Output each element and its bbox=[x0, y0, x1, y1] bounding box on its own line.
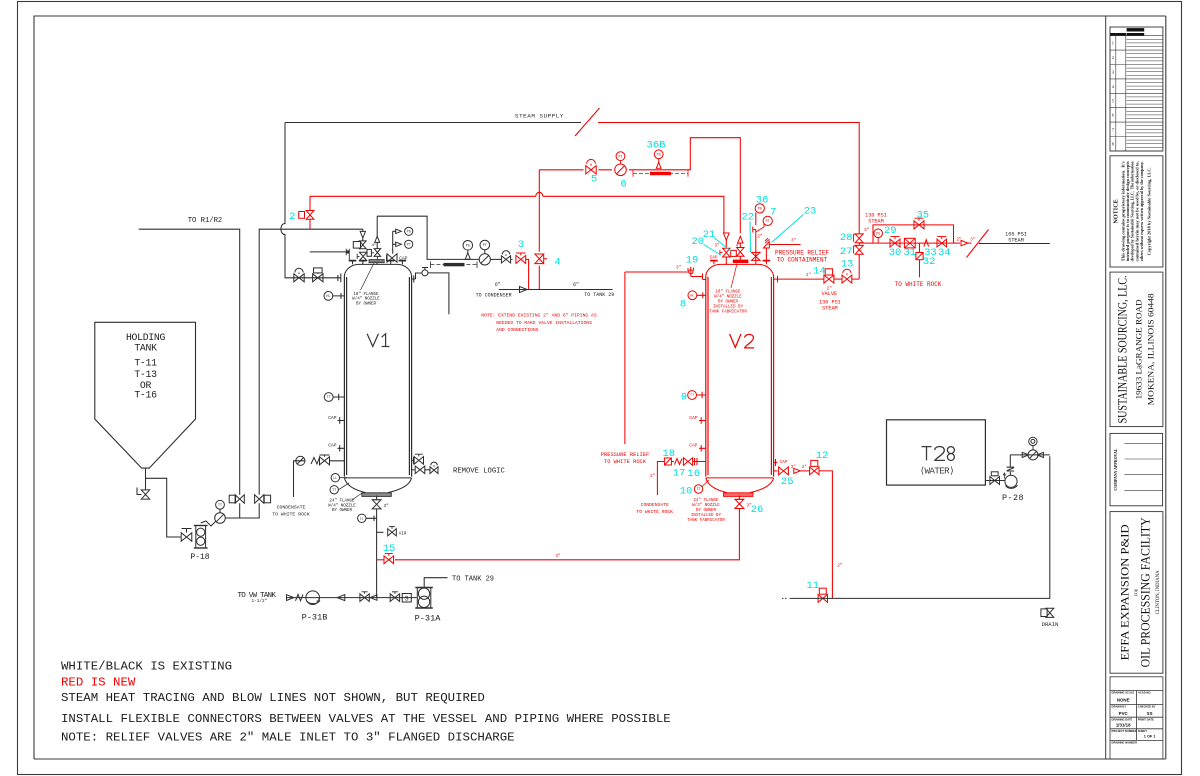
svg-text:VALVE: VALVE bbox=[822, 291, 838, 297]
svg-text:TT: TT bbox=[327, 396, 331, 400]
valve 31 plug bbox=[904, 238, 915, 248]
svg-text:TO CONDENSER: TO CONDENSER bbox=[476, 292, 512, 298]
svg-text:REMOVE LOGIC: REMOVE LOGIC bbox=[453, 468, 505, 476]
pump P-31A bbox=[417, 588, 431, 609]
svg-text:STEAM: STEAM bbox=[1008, 237, 1024, 243]
svg-text:LL: LL bbox=[360, 518, 364, 522]
svg-text:TO WHITE ROCK: TO WHITE ROCK bbox=[636, 509, 673, 515]
wire manifold tail with check bbox=[954, 242, 961, 244]
dimension INSTALL LENGTH black bbox=[430, 264, 477, 266]
leader 22 bbox=[749, 222, 752, 253]
wire valve 12 to drain header bbox=[819, 471, 832, 599]
svg-text:EFFA EXPANSION P&ID: EFFA EXPANSION P&ID bbox=[1120, 524, 1132, 660]
wire steam supply drop to V1 line bbox=[281, 123, 341, 278]
svg-text:28: 28 bbox=[840, 232, 853, 244]
svg-text:6: 6 bbox=[620, 178, 626, 190]
vessel V2 top nozzles bbox=[714, 261, 767, 265]
leader 21 bbox=[715, 238, 732, 252]
P-28 suction valve bbox=[990, 477, 1000, 485]
svg-text:TT: TT bbox=[218, 504, 222, 508]
svg-text:3: 3 bbox=[1112, 70, 1114, 75]
pump P-18 discharge flex and control valve bbox=[201, 521, 216, 526]
svg-text:PRINT DATE: PRINT DATE bbox=[1138, 717, 1154, 721]
svg-text:2″: 2″ bbox=[957, 238, 962, 243]
svg-text:BY OWNER: BY OWNER bbox=[356, 302, 377, 306]
svg-text:CAP: CAP bbox=[328, 415, 337, 421]
V1 bottom LL gauge bbox=[358, 514, 366, 522]
red steam supply continuation bbox=[598, 123, 859, 234]
drain valve bbox=[1046, 608, 1054, 617]
V1 bottom right stub valves bbox=[412, 457, 414, 464]
V2 CAP side nozzle lower bbox=[699, 445, 706, 451]
valve 13 globe bbox=[834, 278, 842, 280]
svg-text:22: 22 bbox=[741, 211, 754, 223]
svg-text:9: 9 bbox=[681, 392, 687, 404]
svg-text:CAP: CAP bbox=[399, 256, 408, 262]
wire T28 outlet to P-28 bbox=[985, 480, 1005, 482]
revision table column header bars bbox=[1110, 33, 1125, 36]
svg-text:DRAWN BY: DRAWN BY bbox=[1112, 705, 1127, 709]
valve 19 fitting bbox=[688, 267, 703, 280]
svg-text:4″: 4″ bbox=[736, 244, 741, 249]
svg-text:HL: HL bbox=[690, 295, 694, 299]
revision table grid bbox=[1110, 33, 1163, 151]
valve 30 bbox=[890, 239, 900, 247]
wire between 28 and 27 bbox=[858, 243, 860, 246]
project title box bbox=[1110, 512, 1163, 674]
leader 23 bbox=[772, 215, 804, 243]
valve on relief riser bbox=[255, 495, 264, 503]
svg-text:SHEET: SHEET bbox=[1138, 729, 1147, 733]
svg-text:PI: PI bbox=[618, 155, 622, 159]
red break slash right bbox=[967, 230, 989, 258]
svg-text:29: 29 bbox=[884, 225, 897, 237]
svg-text:STEAM: STEAM bbox=[868, 218, 884, 224]
svg-text:PG: PG bbox=[876, 233, 880, 237]
svg-text:1 OF 1: 1 OF 1 bbox=[1144, 735, 1156, 739]
red dimension INSTALL LENGTH bbox=[633, 173, 688, 175]
V1 top relief drop from header bbox=[362, 229, 364, 231]
V1 center 4in valve train bbox=[376, 216, 378, 236]
V1 HL gauge bbox=[324, 292, 333, 301]
svg-text:3″: 3″ bbox=[384, 504, 390, 509]
leader 10in flange note bbox=[361, 263, 375, 290]
svg-text:19633 LaGRANGE ROAD: 19633 LaGRANGE ROAD bbox=[1135, 299, 1144, 399]
svg-text:SS: SS bbox=[1147, 711, 1153, 716]
svg-text:NOTICE: NOTICE bbox=[1113, 199, 1120, 223]
svg-text:24″ FLANGE: 24″ FLANGE bbox=[329, 499, 355, 504]
vessel V1 10in flange pad bbox=[369, 260, 384, 263]
svg-text:CHECKED BY: CHECKED BY bbox=[1138, 705, 1156, 709]
svg-text:BY OWNER: BY OWNER bbox=[696, 509, 717, 513]
svg-text:CONDENSATE: CONDENSATE bbox=[277, 505, 306, 511]
holding tank T-11/T-13/T-16 bbox=[95, 322, 196, 468]
V1 gauge hatch line bbox=[310, 251, 346, 253]
valve 28 bbox=[855, 234, 863, 243]
svg-text:TT: TT bbox=[332, 489, 336, 493]
svg-text:TO WHITE ROCK: TO WHITE ROCK bbox=[604, 459, 647, 465]
V1 top CAP valve bbox=[387, 254, 397, 262]
valve 14 bbox=[824, 275, 834, 283]
svg-text:13: 13 bbox=[841, 258, 854, 270]
svg-text:1/31/18: 1/31/18 bbox=[1116, 723, 1131, 728]
V2 left nozzle flange bbox=[703, 279, 706, 281]
notice box bbox=[1110, 156, 1163, 267]
svg-text:21: 21 bbox=[703, 229, 716, 241]
check valve before P-31A branch bbox=[337, 595, 345, 601]
svg-text:P-18: P-18 bbox=[190, 553, 209, 562]
svg-text:T-11: T-11 bbox=[134, 357, 157, 368]
wire V2 left inlet 19 bbox=[625, 271, 689, 273]
V2 right nozzle line to steam valves bbox=[774, 278, 824, 280]
red riser to valve 4 and condenser tie bbox=[538, 170, 540, 290]
svg-text:15: 15 bbox=[383, 543, 396, 555]
red line valves 5 and 6 bbox=[539, 138, 740, 233]
svg-text:PRESSURE RELIEF: PRESSURE RELIEF bbox=[601, 452, 650, 458]
V2 gauges 36 and 7 bbox=[753, 227, 756, 261]
V2 TT side nozzle 9 bbox=[697, 392, 706, 398]
vessel V2 top dome bbox=[706, 264, 774, 275]
svg-text:W/4″ NOZZLE: W/4″ NOZZLE bbox=[714, 294, 742, 299]
svg-text:P-31A: P-31A bbox=[415, 614, 442, 624]
company box bbox=[1110, 272, 1163, 427]
svg-text:NEEDED TO MAKE VALVE INSTALLAT: NEEDED TO MAKE VALVE INSTALLATIONS bbox=[496, 320, 592, 326]
svg-text:DRAIN: DRAIN bbox=[1042, 621, 1059, 628]
svg-text:2″: 2″ bbox=[802, 465, 807, 470]
flex 33 bbox=[924, 240, 929, 247]
svg-text:PRESSURE RELIEF: PRESSURE RELIEF bbox=[775, 250, 829, 257]
control valve with PT on gooseneck bbox=[479, 254, 490, 265]
PI gauge on P-28 discharge bbox=[1032, 446, 1034, 450]
holding tank drain valve bbox=[145, 478, 147, 489]
svg-text:26: 26 bbox=[751, 504, 764, 516]
valve 4 bbox=[535, 254, 544, 264]
svg-text:P-28: P-28 bbox=[1002, 493, 1024, 503]
svg-text:W/4″ NOZZLE: W/4″ NOZZLE bbox=[352, 297, 380, 302]
gauge TT above P-18 control valve bbox=[219, 509, 221, 513]
label T28 bbox=[922, 447, 945, 461]
svg-text:10: 10 bbox=[680, 485, 693, 497]
svg-text:TO TANK 29: TO TANK 29 bbox=[452, 576, 494, 584]
svg-text:4: 4 bbox=[1112, 84, 1114, 89]
svg-text:P-31B: P-31B bbox=[302, 613, 328, 623]
valve 27 bbox=[855, 245, 863, 254]
svg-text:CAP: CAP bbox=[689, 443, 698, 449]
drawing info grid bbox=[1110, 677, 1163, 759]
V2 bottom right CAP stub and valve 25 bbox=[774, 459, 778, 466]
wire valve 27 down to V2 steam inlet bbox=[858, 254, 860, 279]
svg-text:OIL PROCESSING FACILITY: OIL PROCESSING FACILITY bbox=[1139, 517, 1153, 667]
V2 bottom TT gauge 10 bbox=[694, 485, 702, 493]
svg-text:COMPANY APPROVAL: COMPANY APPROVAL bbox=[1113, 449, 1118, 491]
svg-text:2: 2 bbox=[289, 211, 295, 223]
svg-text:STEAM: STEAM bbox=[822, 305, 838, 311]
svg-text:6″: 6″ bbox=[495, 282, 501, 288]
wire V1 top gooseneck to gauges bbox=[377, 216, 479, 259]
svg-text:ACAD NO.: ACAD NO. bbox=[1138, 691, 1152, 695]
V2 HL gauge 8 bbox=[688, 291, 697, 300]
svg-text:PVC: PVC bbox=[1119, 711, 1129, 716]
red header valve 2 to V2 bbox=[310, 196, 724, 233]
pump P-18 suction valve bbox=[181, 533, 192, 541]
svg-text:PT: PT bbox=[407, 244, 411, 248]
vessel V1 top dome bbox=[344, 264, 411, 275]
pump P-28 bbox=[1005, 475, 1017, 487]
valve before strainer bbox=[390, 594, 399, 602]
svg-text:10″ FLANGE: 10″ FLANGE bbox=[715, 289, 741, 294]
svg-text:TO R1/R2: TO R1/R2 bbox=[188, 217, 223, 225]
V2 bottom outlet valve 3in bbox=[738, 496, 740, 500]
svg-text:INSTALLED BY: INSTALLED BY bbox=[713, 305, 744, 309]
svg-text:36: 36 bbox=[756, 195, 769, 207]
svg-text:3″: 3″ bbox=[864, 228, 870, 233]
wire TO TANK 29 from P-31A bbox=[424, 578, 447, 587]
svg-text:2″: 2″ bbox=[758, 235, 763, 240]
V1 top valve with actuator box bbox=[362, 238, 364, 241]
wire relief 23 discharge bbox=[769, 244, 800, 246]
title block left edge bbox=[1105, 16, 1107, 759]
valve 6 control bbox=[615, 164, 627, 176]
svg-text:NONE: NONE bbox=[1117, 698, 1130, 703]
svg-text:2: 2 bbox=[1112, 55, 1114, 60]
svg-text:34: 34 bbox=[938, 247, 951, 259]
svg-text:T-16: T-16 bbox=[134, 390, 157, 401]
valve 2 group bbox=[309, 196, 311, 229]
svg-text:T-13: T-13 bbox=[134, 369, 157, 380]
label V1 bbox=[367, 334, 389, 347]
svg-text:MOKENA, ILLINOIS 60448: MOKENA, ILLINOIS 60448 bbox=[1147, 293, 1156, 405]
svg-text:AIR: AIR bbox=[399, 533, 407, 537]
V1 bottom outlet valve 3in bbox=[376, 496, 378, 500]
svg-text:5: 5 bbox=[1112, 98, 1114, 103]
vessel V2 flange pad red bbox=[733, 260, 749, 263]
V1 bottom AIR valve branch bbox=[377, 531, 384, 533]
V1 bottom outlet line down bbox=[376, 509, 378, 597]
V1 right nozzle to sample stub bbox=[412, 273, 422, 283]
V2 bottom left valves 18 17 16 bbox=[664, 458, 671, 465]
svg-text:11: 11 bbox=[806, 580, 819, 592]
svg-text:TANK FABRICATOR: TANK FABRICATOR bbox=[709, 310, 747, 314]
svg-text:SUSTAINABLE SOURCING, LLC.: SUSTAINABLE SOURCING, LLC. bbox=[1116, 275, 1130, 423]
svg-text:INSTALL FLEXIBLE CONNECTORS BE: INSTALL FLEXIBLE CONNECTORS BETWEEN VALV… bbox=[61, 712, 671, 726]
svg-text:5: 5 bbox=[591, 174, 597, 186]
svg-text:3″: 3″ bbox=[555, 554, 561, 559]
svg-text:2″: 2″ bbox=[837, 563, 843, 568]
svg-text:2″: 2″ bbox=[806, 273, 811, 278]
svg-text:7: 7 bbox=[770, 207, 776, 219]
svg-text:3″: 3″ bbox=[714, 243, 719, 248]
svg-text:TO CONTAINMENT: TO CONTAINMENT bbox=[777, 257, 828, 264]
svg-text:1-1/2″: 1-1/2″ bbox=[252, 599, 268, 604]
valve 5 bbox=[586, 166, 596, 174]
wire pump suction header bbox=[286, 597, 416, 599]
red drop valve 3 to condenser line bbox=[526, 259, 529, 289]
vessel V2 bottom dish and flange bbox=[706, 477, 774, 479]
vessel V1 bottom dish and flange bbox=[344, 477, 411, 479]
svg-text:BY OWNER: BY OWNER bbox=[718, 300, 739, 304]
gauge 36B bbox=[654, 150, 663, 159]
svg-text:18: 18 bbox=[662, 448, 675, 460]
strainer S bbox=[402, 594, 411, 603]
svg-text:36B: 36B bbox=[647, 139, 666, 151]
gauge 29 bbox=[877, 238, 879, 244]
V2 top square fitting bbox=[731, 250, 737, 256]
svg-text:12: 12 bbox=[816, 450, 829, 462]
svg-text:3: 3 bbox=[518, 239, 524, 251]
valve train at V1 left inlet bbox=[294, 274, 304, 282]
svg-text:8: 8 bbox=[1112, 142, 1114, 147]
svg-text:27: 27 bbox=[840, 246, 853, 258]
pump P-18 bbox=[196, 526, 206, 549]
svg-text:TO TANK 29: TO TANK 29 bbox=[584, 292, 614, 298]
rupture disc 32 branch bbox=[919, 243, 921, 277]
valve 3 bbox=[511, 258, 513, 260]
svg-text:PT: PT bbox=[483, 244, 487, 248]
svg-text:4: 4 bbox=[554, 256, 560, 268]
valve 11 on drain header bbox=[818, 595, 827, 603]
svg-text:DRAWING SCALE: DRAWING SCALE bbox=[1112, 691, 1135, 695]
svg-text:PG: PG bbox=[407, 231, 411, 235]
V2 bottom line to condensate header bbox=[395, 509, 740, 560]
valve 12 bbox=[800, 470, 809, 472]
svg-text:Copyright 2018 by Sustainable: Copyright 2018 by Sustainable Sourcing, … bbox=[1147, 167, 1152, 255]
svg-text:3″: 3″ bbox=[791, 239, 796, 244]
svg-text:DRAWING NUMBER: DRAWING NUMBER bbox=[1112, 741, 1138, 745]
svg-text:WHITE/BLACK IS EXISTING: WHITE/BLACK IS EXISTING bbox=[61, 660, 232, 674]
V1 left inlet nozzle bbox=[338, 274, 341, 283]
svg-text:W/3″ NOZZLE: W/3″ NOZZLE bbox=[692, 503, 720, 508]
vessel V2 shell bbox=[706, 276, 774, 477]
svg-text:PT: PT bbox=[766, 220, 770, 224]
svg-text:PG: PG bbox=[758, 208, 762, 212]
svg-text:CONDENSATE: CONDENSATE bbox=[641, 502, 669, 508]
valve on R1/R2 riser bbox=[235, 495, 244, 503]
wire relief header to P-18 riser bbox=[226, 229, 363, 518]
svg-text:INSTALLED BY: INSTALLED BY bbox=[691, 514, 722, 518]
svg-text:TO WHITE ROCK: TO WHITE ROCK bbox=[895, 281, 942, 288]
svg-text:W/4″ NOZZLE: W/4″ NOZZLE bbox=[328, 503, 356, 508]
svg-text:PG: PG bbox=[466, 245, 470, 249]
wire P-28 discharge header bbox=[1010, 454, 1050, 456]
svg-text:24″ FLANGE: 24″ FLANGE bbox=[693, 498, 719, 503]
pump P-31B bbox=[306, 591, 320, 605]
svg-text:25: 25 bbox=[781, 476, 794, 488]
svg-text:CAP: CAP bbox=[689, 415, 698, 421]
svg-text:HL: HL bbox=[326, 295, 330, 299]
svg-text:6: 6 bbox=[1112, 113, 1114, 118]
P-28 discharge with flex bbox=[1009, 472, 1011, 476]
red break slash top bbox=[575, 108, 600, 136]
vessel V1 top nozzles bbox=[353, 261, 403, 264]
control valve on P-28 discharge bbox=[1028, 450, 1038, 460]
svg-text:23: 23 bbox=[804, 205, 817, 217]
svg-text:AND CONNECTIONS: AND CONNECTIONS bbox=[496, 327, 538, 333]
revision table frame bbox=[1110, 27, 1163, 151]
V1 CAP side nozzle upper bbox=[338, 417, 345, 423]
svg-text:3″: 3″ bbox=[970, 237, 975, 242]
svg-text:TT: TT bbox=[690, 394, 694, 398]
wire TO R1/R2 line bbox=[139, 229, 240, 518]
svg-text:4″: 4″ bbox=[372, 243, 377, 248]
V1 TT side nozzle bbox=[333, 394, 344, 400]
svg-text:PROJECT NUMBER: PROJECT NUMBER bbox=[1112, 729, 1137, 733]
svg-text:35: 35 bbox=[916, 210, 929, 222]
revision table REVISIONS header bar bbox=[1127, 28, 1145, 31]
condensate drop from 17 bbox=[657, 462, 664, 496]
wire bottom drain header bbox=[790, 456, 1050, 598]
V2 top valve 21 train bbox=[738, 236, 743, 243]
V1 LL TT bottom gauges bbox=[331, 474, 339, 482]
svg-text:TANK FABRICATOR: TANK FABRICATOR bbox=[687, 519, 725, 523]
svg-text:DRAWING DATE: DRAWING DATE bbox=[1112, 717, 1133, 721]
V1 PG PT gauges right of dome bbox=[393, 231, 397, 253]
V1 CAP side nozzle lower bbox=[338, 445, 345, 451]
svg-text:PG: PG bbox=[657, 154, 661, 158]
T28 tank box bbox=[887, 420, 986, 485]
svg-text:8: 8 bbox=[680, 298, 686, 310]
svg-text:TO WHITE ROCK: TO WHITE ROCK bbox=[272, 512, 310, 518]
svg-text:17: 17 bbox=[673, 468, 686, 480]
svg-text:CAP: CAP bbox=[710, 256, 718, 261]
leader 20 bbox=[704, 245, 722, 256]
svg-text:NOTE: RELIEF VALVES ARE 2″ MAL: NOTE: RELIEF VALVES ARE 2″ MALE INLET TO… bbox=[61, 730, 515, 744]
svg-text:10″ FLANGE: 10″ FLANGE bbox=[353, 292, 379, 297]
wire 165 PSI STEAM black bbox=[979, 243, 1050, 245]
V2 top triangle relief on valve2 line bbox=[723, 233, 729, 240]
V1 bottom left drain line bbox=[294, 461, 345, 497]
svg-text:CLINTON, INDIANA: CLINTON, INDIANA bbox=[1156, 570, 1161, 614]
V1 top second valve bbox=[360, 252, 367, 260]
svg-text:⟨WATER⟩: ⟨WATER⟩ bbox=[920, 465, 954, 476]
svg-text:LL: LL bbox=[333, 477, 337, 481]
holding tank outlet piping bbox=[146, 468, 182, 537]
svg-text:others without express written: others without express written approval … bbox=[1139, 161, 1144, 261]
V2 pressure relief drop line bbox=[624, 272, 626, 444]
V2 CAP side nozzle upper bbox=[699, 417, 706, 423]
V2 top CAP valve 20 bbox=[723, 248, 730, 257]
svg-text:6″: 6″ bbox=[573, 282, 579, 288]
svg-text:STEAM HEAT TRACING AND BLOW LI: STEAM HEAT TRACING AND BLOW LINES NOT SH… bbox=[61, 691, 485, 705]
company approval box bbox=[1110, 433, 1163, 505]
svg-text:TANK: TANK bbox=[134, 343, 157, 354]
wire valve 15 to black riser bbox=[377, 559, 384, 561]
svg-text:7: 7 bbox=[1112, 127, 1114, 132]
valve 35 on bypass bbox=[914, 221, 924, 229]
gauge PG on gooseneck bbox=[463, 241, 473, 251]
svg-text:NOTE: EXTEND EXISTING 2″ AND 6: NOTE: EXTEND EXISTING 2″ AND 6″ PIPING A… bbox=[481, 313, 597, 319]
company approval signature lines bbox=[1125, 443, 1163, 490]
svg-text:33: 33 bbox=[924, 247, 937, 259]
svg-text:19: 19 bbox=[686, 254, 699, 266]
svg-text:31: 31 bbox=[903, 247, 916, 259]
svg-text:S: S bbox=[405, 596, 409, 603]
globe valve before valve 3 bbox=[490, 258, 501, 260]
valve 15 bbox=[384, 556, 394, 564]
svg-text:3″: 3″ bbox=[676, 265, 681, 270]
check valve after VW tank label bbox=[287, 595, 294, 601]
wire steam supply header bbox=[285, 122, 581, 124]
svg-text:30: 30 bbox=[889, 247, 902, 259]
svg-text:TT: TT bbox=[696, 488, 700, 492]
svg-text:BY OWNER: BY OWNER bbox=[332, 509, 353, 513]
valve 34 bbox=[937, 239, 947, 247]
svg-text:2″: 2″ bbox=[650, 474, 656, 479]
svg-text:RED IS NEW: RED IS NEW bbox=[61, 675, 136, 689]
svg-text:HOLDING: HOLDING bbox=[126, 332, 165, 343]
wire steam manifold bbox=[859, 225, 953, 243]
svg-text:CAP: CAP bbox=[780, 460, 788, 465]
svg-text:CAP: CAP bbox=[328, 443, 337, 449]
